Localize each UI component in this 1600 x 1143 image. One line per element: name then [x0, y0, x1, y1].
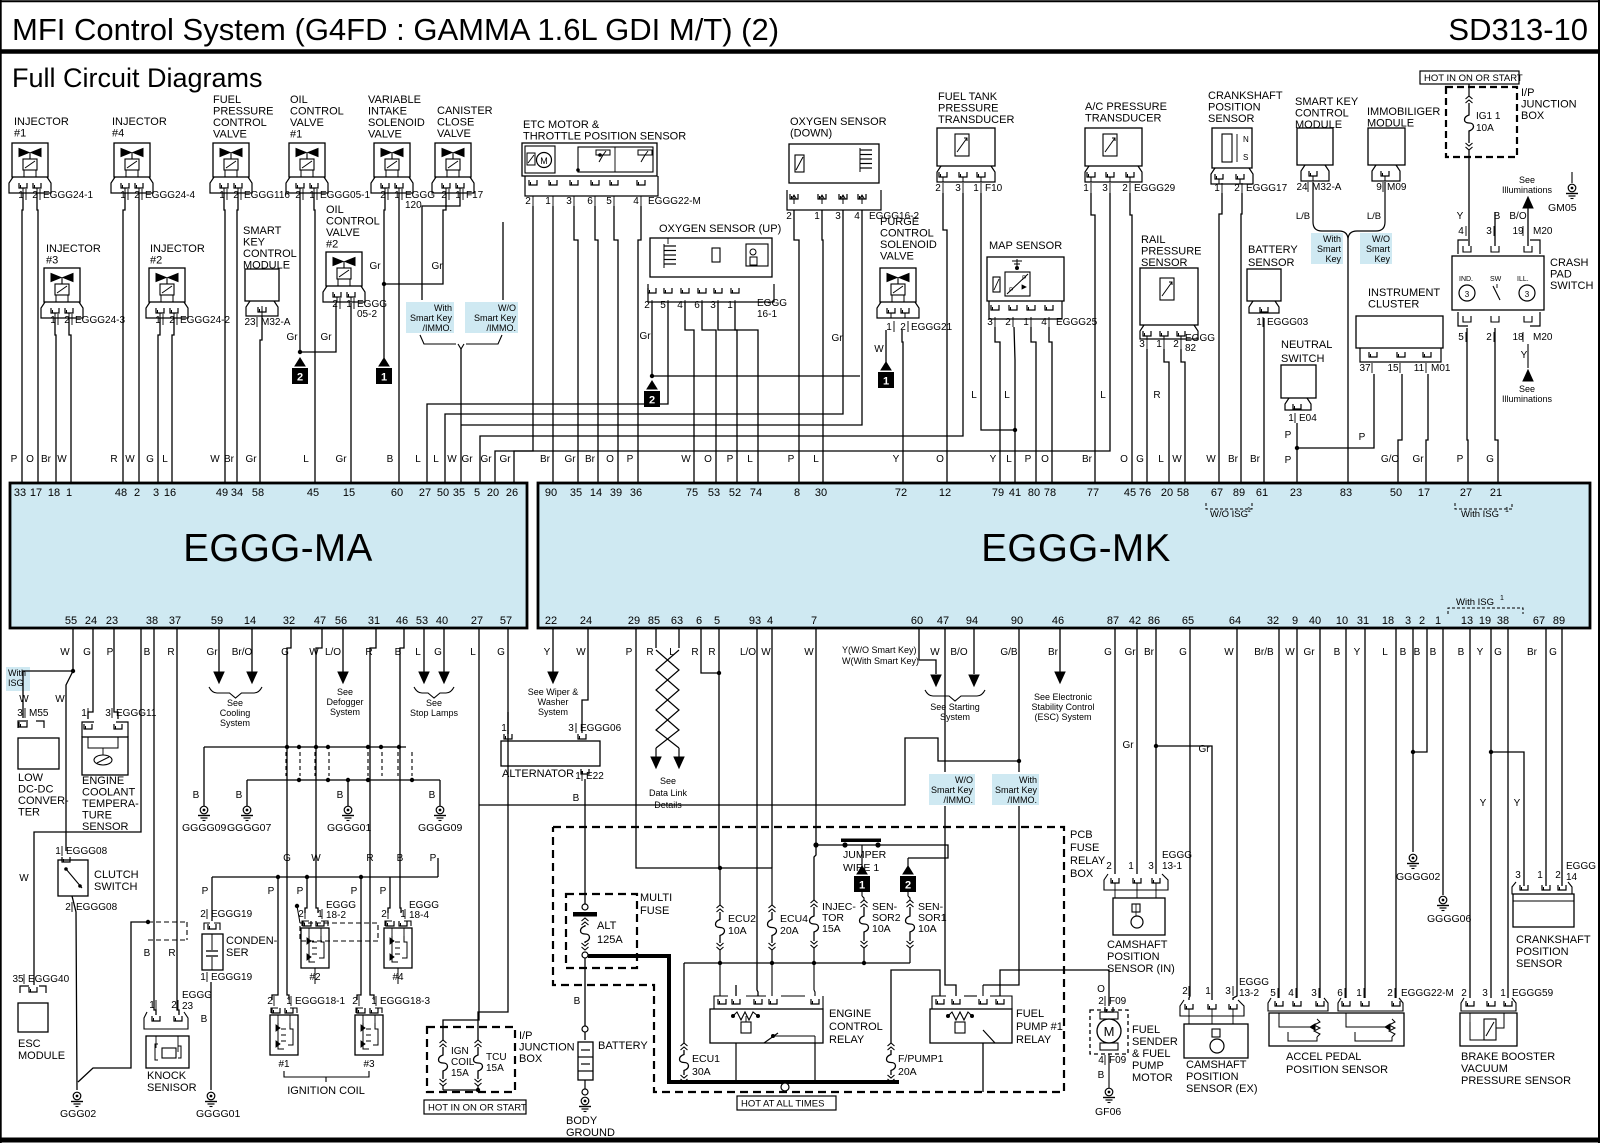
svg-text:O: O — [1041, 454, 1049, 465]
wire MK93 to relay — [757, 628, 758, 996]
svg-text:GROUND: GROUND — [566, 1127, 615, 1139]
svg-text:B: B — [1458, 647, 1465, 658]
svg-text:2: 2 — [298, 909, 304, 920]
svg-text:M01: M01 — [1431, 363, 1451, 374]
svg-text:3: 3 — [568, 723, 574, 734]
svg-text:W/O: W/O — [498, 303, 516, 313]
svg-text:EGGG21: EGGG21 — [911, 322, 953, 333]
svg-text:24: 24 — [580, 615, 592, 627]
svg-text:G: G — [283, 853, 291, 864]
svg-text:See: See — [1519, 175, 1535, 185]
svg-text:SER: SER — [226, 947, 249, 959]
svg-text:P: P — [268, 886, 275, 897]
svg-text:SENISOR: SENISOR — [147, 1082, 197, 1094]
svg-text:53: 53 — [708, 487, 720, 499]
svg-text:L: L — [433, 454, 439, 465]
wire MK2 join — [1413, 628, 1427, 752]
svg-text:R: R — [708, 647, 715, 658]
svg-text:Gr: Gr — [639, 331, 651, 342]
svg-text:G: G — [146, 454, 154, 465]
svg-text:TURE: TURE — [82, 810, 112, 822]
svg-text:79: 79 — [992, 487, 1004, 499]
svg-text:1: 1 — [973, 183, 979, 194]
svg-text:& FUEL: & FUEL — [1132, 1048, 1171, 1060]
svg-text:3: 3 — [1405, 615, 1411, 627]
wire MA24 to ECT pin1 — [88, 628, 93, 719]
svg-text:FUEL: FUEL — [1132, 1024, 1160, 1036]
svg-text:ILL.: ILL. — [1517, 276, 1529, 283]
wire battery sensor to MK61 — [1263, 318, 1265, 483]
svg-text:14: 14 — [590, 487, 602, 499]
svg-text:19: 19 — [1479, 615, 1491, 627]
svg-text:POSITION: POSITION — [1516, 946, 1569, 958]
svg-text:EGGG11: EGGG11 — [116, 708, 157, 719]
svg-text:Br/B: Br/B — [1254, 647, 1274, 658]
svg-text:1: 1 — [545, 196, 551, 207]
svg-text:EGGG59: EGGG59 — [1512, 988, 1554, 999]
svg-text:11: 11 — [1414, 363, 1425, 374]
svg-text:EGGG25: EGGG25 — [1056, 317, 1098, 328]
svg-text:20A: 20A — [898, 1066, 917, 1078]
svg-text:10: 10 — [1336, 615, 1348, 627]
svg-text:1: 1 — [1205, 986, 1211, 997]
svg-text:P: P — [11, 454, 18, 465]
wire B/O illum to crash pad 19 — [1527, 208, 1529, 246]
wire purge pin2 to MK72 — [902, 330, 903, 483]
svg-text:POSITION: POSITION — [1186, 1071, 1239, 1083]
svg-text:M32-A: M32-A — [1312, 182, 1342, 193]
svg-text:P: P — [1359, 432, 1366, 443]
wire cluster 15 to MK50 — [1398, 374, 1402, 483]
svg-text:See: See — [227, 698, 243, 708]
svg-text:Gr: Gr — [1198, 744, 1210, 755]
svg-text:IND.: IND. — [1459, 276, 1473, 283]
svg-text:Gr: Gr — [206, 647, 218, 658]
svg-text:G: G — [497, 647, 505, 658]
svg-text:W: W — [804, 647, 814, 658]
svg-text:23: 23 — [244, 317, 256, 328]
svg-text:12: 12 — [939, 487, 951, 499]
svg-text:31: 31 — [1357, 615, 1369, 627]
svg-text:1: 1 — [1435, 615, 1441, 627]
svg-text:22: 22 — [545, 615, 557, 627]
svg-text:2: 2 — [1486, 332, 1492, 343]
svg-text:Gr: Gr — [369, 261, 381, 272]
wire rail pin3 to MK76 — [1146, 349, 1148, 483]
svg-text:10A: 10A — [1476, 123, 1494, 134]
svg-text:2: 2 — [352, 996, 358, 1007]
svg-text:P: P — [202, 886, 209, 897]
svg-text:1: 1 — [1356, 988, 1362, 999]
wire injector2-2 to MA16 — [172, 318, 174, 483]
svg-text:2: 2 — [935, 183, 941, 194]
wire cluster 11 to MK17 — [1426, 374, 1428, 483]
svg-text:BODY: BODY — [566, 1115, 598, 1127]
svg-text:F/PUMP1: F/PUMP1 — [898, 1053, 944, 1065]
svg-text:18: 18 — [48, 487, 60, 499]
svg-text:SOLENOID: SOLENOID — [880, 239, 937, 251]
svg-text:B: B — [574, 996, 581, 1007]
wire MA59 Gr to cooling — [218, 628, 220, 672]
svg-text:L: L — [470, 647, 476, 658]
wire immobiliser L/B — [1384, 182, 1386, 222]
svg-text:Full Circuit Diagrams: Full Circuit Diagrams — [12, 63, 263, 93]
ground GGGG06 — [1439, 896, 1447, 904]
jumper wire 1 — [813, 842, 818, 847]
PCB fuse relay box — [553, 827, 1064, 1092]
marker 2 (sensor1 feed) — [903, 866, 913, 874]
svg-text:20: 20 — [487, 487, 499, 499]
svg-text:FUEL: FUEL — [213, 94, 241, 106]
svg-text:15: 15 — [1387, 363, 1399, 374]
svg-text:W: W — [55, 694, 65, 705]
wire MK29 P to ECU fuse bus — [636, 628, 772, 868]
svg-text:05-2: 05-2 — [357, 309, 377, 320]
smart key top annotation (mid) — [406, 302, 454, 333]
svg-text:Y: Y — [893, 454, 900, 465]
svg-text:17: 17 — [1418, 487, 1430, 499]
svg-text:(ESC) System: (ESC) System — [1034, 712, 1091, 722]
svg-text:W: W — [1172, 454, 1182, 465]
svg-text:W: W — [1285, 647, 1295, 658]
wire ETC pin2 to MA26 — [514, 206, 533, 483]
marker 1 (sensor2 feed) — [857, 866, 867, 874]
svg-text:W: W — [125, 454, 135, 465]
wire injector4-2 to MA2 — [138, 193, 140, 483]
svg-text:3: 3 — [1525, 290, 1530, 299]
jumper to sensor fuses — [878, 845, 948, 858]
wire to battery — [584, 958, 586, 1040]
svg-text:18-2: 18-2 — [326, 910, 346, 921]
wire smart key module L/B — [1312, 182, 1314, 222]
svg-text:32: 32 — [283, 615, 295, 627]
svg-text:2: 2 — [171, 1000, 177, 1011]
svg-text:3: 3 — [1102, 183, 1108, 194]
ground rail 2 — [247, 779, 440, 781]
svg-text:NEUTRAL: NEUTRAL — [1281, 339, 1332, 351]
wire MK64 to cam-ex pin3 — [1233, 628, 1237, 1000]
svg-text:POSITION SENSOR: POSITION SENSOR — [1286, 1064, 1388, 1076]
svg-text:GGGG02: GGGG02 — [1396, 871, 1441, 883]
svg-text:L: L — [747, 454, 753, 465]
svg-text:P: P — [380, 886, 387, 897]
svg-text:SD313-10: SD313-10 — [1448, 12, 1588, 47]
svg-text:JUMPER: JUMPER — [843, 849, 887, 861]
svg-text:6: 6 — [696, 615, 702, 627]
svg-text:23: 23 — [1290, 487, 1302, 499]
svg-text:W: W — [447, 454, 457, 465]
svg-text:16-1: 16-1 — [757, 309, 777, 320]
svg-text:Illuminations: Illuminations — [1502, 185, 1553, 195]
svg-text:See: See — [337, 687, 353, 697]
svg-text:System: System — [538, 707, 568, 717]
svg-text:W: W — [210, 454, 220, 465]
svg-text:W: W — [576, 647, 586, 658]
svg-text:P: P — [1009, 287, 1013, 294]
svg-text:SOLENOID: SOLENOID — [368, 117, 425, 129]
svg-text:B: B — [1334, 647, 1341, 658]
svg-text:EGGG03: EGGG03 — [1267, 317, 1309, 328]
svg-text:R: R — [168, 948, 175, 959]
svg-text:W: W — [681, 454, 691, 465]
svg-text:Y: Y — [990, 454, 997, 465]
svg-text:2: 2 — [1106, 861, 1112, 872]
svg-text:INTAKE: INTAKE — [368, 106, 407, 118]
page frame — [0, 0, 1600, 2]
fuse ECU2 10A — [719, 868, 721, 905]
svg-text:L/O: L/O — [325, 647, 341, 658]
svg-text:85: 85 — [648, 615, 660, 627]
wire merged smart key to MK83 — [1347, 240, 1349, 483]
svg-text:R: R — [366, 853, 373, 864]
svg-text:EGGG-MK: EGGG-MK — [981, 527, 1171, 570]
svg-text:2: 2 — [297, 372, 303, 384]
svg-text:G/B: G/B — [1000, 647, 1018, 658]
svg-text:77: 77 — [1087, 487, 1099, 499]
svg-text:Y: Y — [1457, 211, 1464, 222]
svg-text:SWITCH: SWITCH — [1550, 280, 1593, 292]
svg-text:38: 38 — [1497, 615, 1509, 627]
wire injector3-1 to MA18 — [55, 318, 56, 483]
wire injector3-2 to MA1 — [69, 318, 71, 483]
svg-text:63: 63 — [671, 615, 683, 627]
wire MA27 L to IGN COIL fuse — [443, 628, 479, 1040]
svg-text:13: 13 — [1461, 615, 1473, 627]
fuel pump #1 relay — [936, 999, 944, 1004]
svg-text:4: 4 — [767, 615, 773, 627]
svg-text:9: 9 — [1292, 615, 1298, 627]
svg-text:PRESSURE: PRESSURE — [938, 103, 999, 115]
svg-text:32: 32 — [1267, 615, 1279, 627]
svg-text:18-4: 18-4 — [409, 910, 429, 921]
svg-text:I/P: I/P — [519, 1030, 532, 1042]
svg-text:Br: Br — [1144, 647, 1155, 658]
svg-text:B: B — [429, 790, 436, 801]
battery — [578, 1042, 593, 1080]
svg-text:CONVER-: CONVER- — [18, 795, 69, 807]
svg-text:EGGG24-2: EGGG24-2 — [180, 315, 230, 326]
svg-text:1: 1 — [55, 846, 61, 857]
svg-text:27: 27 — [471, 615, 483, 627]
svg-text:23: 23 — [182, 1001, 194, 1012]
svg-text:G: G — [434, 647, 442, 658]
marker 1 (purge valve) — [881, 362, 891, 370]
wire MAP pin4 to MK78 — [1049, 327, 1052, 483]
svg-text:40: 40 — [1309, 615, 1321, 627]
svg-text:14: 14 — [1566, 872, 1578, 883]
wire P to coil2 pin2 — [305, 877, 307, 913]
wire variable intake pin2 to MA60 — [398, 193, 400, 483]
wire crash pad pin3 stub — [1494, 212, 1496, 246]
svg-text:SENSOR: SENSOR — [82, 821, 129, 833]
svg-text:MAP SENSOR: MAP SENSOR — [989, 240, 1062, 252]
svg-text:24: 24 — [1296, 182, 1308, 193]
svg-text:3: 3 — [1465, 290, 1470, 299]
svg-text:EGGG19: EGGG19 — [211, 909, 253, 920]
wire MK4 to relay — [771, 628, 773, 868]
svg-text:Cooling: Cooling — [220, 708, 251, 718]
svg-text:2: 2 — [65, 902, 71, 913]
svg-text:SENSOR: SENSOR — [1141, 257, 1188, 269]
svg-text:SW: SW — [1490, 276, 1502, 283]
svg-text:P: P — [626, 647, 633, 658]
svg-text:2: 2 — [1173, 339, 1179, 350]
svg-text:2: 2 — [644, 300, 650, 311]
svg-text:/IMMO.: /IMMO. — [1008, 795, 1038, 805]
wire fuel tank pin3 to MA5 — [480, 193, 963, 483]
svg-text:Br: Br — [1250, 454, 1261, 465]
svg-text:56: 56 — [335, 615, 347, 627]
svg-text:15A: 15A — [486, 1063, 504, 1074]
svg-text:System: System — [220, 718, 250, 728]
svg-text:DC-DC: DC-DC — [18, 784, 53, 796]
svg-text:EGGG: EGGG — [1566, 861, 1596, 872]
svg-text:14: 14 — [244, 615, 256, 627]
svg-text:M: M — [540, 156, 548, 166]
svg-text:30: 30 — [815, 487, 827, 499]
svg-text:R: R — [646, 647, 653, 658]
svg-text:Y: Y — [1354, 647, 1361, 658]
svg-text:SMART KEY: SMART KEY — [1295, 96, 1359, 108]
svg-text:33: 33 — [14, 487, 26, 499]
svg-text:B: B — [144, 647, 151, 658]
svg-text:L/B: L/B — [1367, 211, 1381, 222]
svg-text:CONTROL: CONTROL — [326, 216, 380, 228]
ignition coil brace — [284, 1071, 369, 1077]
svg-text:EGGG: EGGG — [1239, 977, 1269, 988]
fuse SENSOR2 10A — [861, 900, 868, 903]
svg-text:7: 7 — [811, 615, 817, 627]
svg-text:4: 4 — [1458, 226, 1464, 237]
fuse SENSOR1 10A — [907, 900, 914, 903]
svg-text:EGGG19: EGGG19 — [211, 972, 253, 983]
svg-text:F10: F10 — [985, 183, 1003, 194]
wire MK85 stub — [655, 628, 657, 648]
svg-text:18: 18 — [1512, 332, 1524, 343]
svg-text:1: 1 — [1537, 870, 1543, 881]
svg-text:INJECTOR: INJECTOR — [46, 243, 101, 255]
svg-text:CRASH: CRASH — [1550, 257, 1589, 269]
svg-text:Br: Br — [1048, 647, 1059, 658]
svg-text:L: L — [1100, 390, 1106, 401]
svg-text:1: 1 — [1156, 339, 1162, 350]
wire condenser to GGGG01 — [210, 982, 212, 1090]
svg-text:See Electronic: See Electronic — [1034, 692, 1093, 702]
svg-text:Gr: Gr — [245, 454, 257, 465]
svg-text:2: 2 — [332, 299, 338, 310]
svg-text:B/O: B/O — [950, 647, 967, 658]
svg-text:VARIABLE: VARIABLE — [368, 94, 421, 106]
svg-text:Smart: Smart — [1317, 244, 1342, 254]
svg-text:G: G — [83, 647, 91, 658]
svg-text:R: R — [167, 647, 174, 658]
svg-text:JUNCTION: JUNCTION — [1521, 99, 1577, 111]
svg-text:SENSOR: SENSOR — [1248, 257, 1295, 269]
svg-text:B: B — [337, 790, 344, 801]
wire oxy-up pin1 to MK74 — [735, 302, 758, 483]
svg-text:P: P — [351, 886, 358, 897]
svg-text:(DOWN): (DOWN) — [790, 128, 832, 140]
wire oxy-up pin2 (Gr) to marker 2 — [651, 302, 653, 376]
svg-text:46: 46 — [396, 615, 408, 627]
wire MA47 W to ignition2 — [316, 628, 322, 913]
svg-text:1: 1 — [501, 723, 507, 734]
svg-text:P: P — [1025, 454, 1032, 465]
svg-text:PRESSURE: PRESSURE — [213, 106, 274, 118]
ground GGGG02 — [1409, 854, 1417, 862]
svg-text:3: 3 — [835, 211, 841, 222]
svg-text:ECU4: ECU4 — [780, 913, 808, 925]
svg-text:1: 1 — [1288, 413, 1294, 424]
svg-text:2: 2 — [134, 487, 140, 499]
svg-text:3: 3 — [955, 183, 961, 194]
svg-text:O: O — [26, 454, 34, 465]
svg-text:P: P — [1022, 275, 1026, 282]
svg-text:P: P — [107, 647, 114, 658]
svg-text:90: 90 — [545, 487, 557, 499]
wire MK89 to crank pin2 — [1561, 628, 1563, 886]
svg-text:FUEL TANK: FUEL TANK — [938, 91, 998, 103]
wire MK7 to jumper — [815, 628, 817, 845]
svg-text:53: 53 — [416, 615, 428, 627]
svg-text:EGGG22-M: EGGG22-M — [648, 196, 701, 207]
svg-text:LOW: LOW — [18, 772, 44, 784]
svg-text:TCU: TCU — [486, 1052, 507, 1063]
svg-text:GM05: GM05 — [1548, 202, 1577, 214]
svg-text:B: B — [201, 1014, 208, 1025]
svg-text:See: See — [426, 698, 442, 708]
svg-text:ESC: ESC — [18, 1038, 41, 1050]
wire ETC pin6 to MK14 — [595, 206, 598, 483]
svg-text:B/O: B/O — [1509, 211, 1526, 222]
svg-text:MODULE: MODULE — [1295, 119, 1342, 131]
svg-text:Smart Key: Smart Key — [931, 785, 974, 795]
wire crank top pin2 to MK89 — [1241, 193, 1242, 483]
svg-text:Key: Key — [1325, 254, 1341, 264]
wire MA55 to low dc-dc / clutch — [72, 628, 74, 671]
svg-text:35: 35 — [570, 487, 582, 499]
svg-text:16: 16 — [164, 487, 176, 499]
I/P junction box (bottom) — [427, 1027, 515, 1092]
wire ETC pin5 to MK39 — [614, 206, 618, 483]
wire injector4-1 to MA48 — [123, 193, 125, 483]
svg-text:TRANSDUCER: TRANSDUCER — [938, 114, 1014, 126]
svg-text:See: See — [660, 776, 676, 786]
svg-text:GF06: GF06 — [1095, 1106, 1121, 1118]
svg-text:M55: M55 — [29, 708, 49, 719]
shield box (ignition feed) — [295, 904, 299, 908]
svg-text:VALVE: VALVE — [290, 117, 324, 129]
svg-text:B: B — [1430, 647, 1437, 658]
svg-text:SWITCH: SWITCH — [1281, 353, 1324, 365]
svg-text:W: W — [761, 647, 771, 658]
svg-text:4: 4 — [1098, 1055, 1104, 1066]
svg-text:RELAY: RELAY — [1070, 855, 1106, 867]
svg-text:EGGG: EGGG — [182, 990, 212, 1001]
svg-text:Stability Control: Stability Control — [1031, 702, 1094, 712]
svg-text:60: 60 — [911, 615, 923, 627]
svg-text:/IMMO.: /IMMO. — [944, 795, 974, 805]
wire ETC pin4 to MK36 — [638, 206, 641, 483]
svg-text:39: 39 — [610, 487, 622, 499]
svg-text:OIL: OIL — [290, 94, 308, 106]
svg-text:2: 2 — [649, 395, 655, 407]
svg-text:42: 42 — [1129, 615, 1141, 627]
wire purge pin1 (W) to marker 1 — [885, 330, 887, 362]
hot at all times label — [737, 1096, 836, 1110]
svg-text:GGGG01: GGGG01 — [327, 822, 372, 834]
svg-text:3: 3 — [105, 708, 111, 719]
